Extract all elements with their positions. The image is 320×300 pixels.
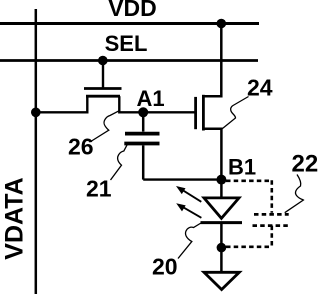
wire LED cathode down <box>220 223 223 273</box>
svg-text:21: 21 <box>86 176 112 202</box>
svg-text:VDD: VDD <box>108 0 157 21</box>
svg-text:SEL: SEL <box>105 31 148 56</box>
junction dot below LED <box>217 243 227 253</box>
leader line for 26 <box>92 111 120 141</box>
transistor Q26 channel bar <box>86 95 120 98</box>
transistor Q24 drain leg to VDD <box>203 24 221 97</box>
dashed wire C22 to LED cathode node (bottom) <box>226 246 272 249</box>
transistor Q26 gate bar <box>84 87 122 90</box>
capacitor C22 top plate (dashed) <box>254 213 289 216</box>
leader line for 21 <box>111 144 128 180</box>
capacitor C21 top plate <box>125 132 160 136</box>
node A1 junction dot <box>138 107 148 117</box>
light emission arrow 2 shaft <box>181 206 202 218</box>
capacitor C21 bottom stem <box>142 145 145 179</box>
svg-text:20: 20 <box>152 253 178 279</box>
wire VDATA vertical line <box>35 9 38 294</box>
svg-text:26: 26 <box>68 134 94 160</box>
dashed wire C22 bottom vertical <box>270 226 273 247</box>
wire B1 to LED anode <box>220 180 223 198</box>
wire VDATA to Q26 source <box>36 111 89 113</box>
LED D20 cathode bar <box>201 221 243 224</box>
junction dot on VDATA at data wire <box>31 108 41 118</box>
junction dot on SEL at Q26 gate <box>98 56 108 66</box>
wire SEL rail <box>0 59 258 62</box>
wire VDD rail <box>0 22 259 25</box>
node B1 junction dot <box>216 175 226 185</box>
dashed wire C22 top vertical <box>270 180 273 212</box>
capacitor C21 bottom plate <box>124 142 159 146</box>
transistor Q26 left leg <box>86 96 88 113</box>
wire C21 bottom to node B1 <box>143 178 221 180</box>
LED D20 anode triangle <box>204 198 239 218</box>
svg-text:A1: A1 <box>136 86 164 111</box>
transistor Q26 right leg <box>118 96 120 113</box>
light emission arrow 1 head <box>176 186 186 194</box>
transistor Q26 gate lead <box>102 61 104 89</box>
dashed wire B1 to C22 (top) <box>226 180 272 183</box>
transistor Q24 channel bar <box>202 95 205 131</box>
wire Q26 drain to A1 to Q24 gate <box>119 111 195 113</box>
leader line for 22 <box>285 175 304 213</box>
junction dot on VDD at Q24 drain <box>217 19 227 29</box>
svg-text:22: 22 <box>292 151 319 178</box>
svg-text:VDATA: VDATA <box>1 177 29 259</box>
capacitor C21 top stem <box>142 112 145 131</box>
leader line for 20 <box>178 223 201 259</box>
leader line for 24 <box>222 97 249 130</box>
light emission arrow 2 head <box>176 203 186 211</box>
ground symbol <box>204 272 239 289</box>
light emission arrow 1 shaft <box>181 189 202 202</box>
svg-text:B1: B1 <box>228 155 256 180</box>
capacitor C22 bottom plate (dashed) <box>253 224 291 227</box>
transistor Q24 gate bar <box>194 97 197 129</box>
svg-text:24: 24 <box>247 74 273 100</box>
transistor Q24 source leg to B1 <box>203 129 221 180</box>
